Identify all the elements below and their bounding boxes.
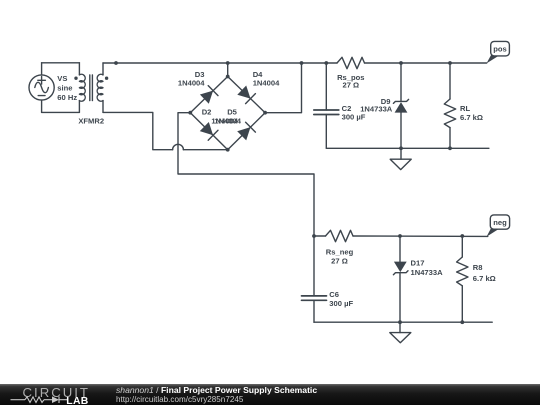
- capacitor C2: [314, 63, 339, 148]
- wire bridge top stub: [227, 63, 229, 77]
- wire neg rail: [353, 235, 488, 237]
- node D17 bottom: [398, 320, 402, 324]
- node bridge top vertex: [226, 75, 230, 79]
- diode D5: [237, 122, 255, 140]
- svg-text:D2: D2: [202, 108, 212, 117]
- svg-text:1N4733A: 1N4733A: [411, 268, 444, 277]
- svg-text:shannon1 / Final Project Power: shannon1 / Final Project Power Supply Sc…: [116, 385, 317, 395]
- wire source loop top: [42, 62, 80, 64]
- node R8 top: [460, 234, 464, 238]
- node R8 bottom: [460, 320, 464, 324]
- wire hop to bridge bottom vertex: [183, 149, 227, 151]
- label C6 300 uF: [329, 290, 353, 308]
- label R8 6.7 kohm: [473, 263, 496, 283]
- node RL top: [448, 61, 452, 65]
- flag pos: [487, 41, 510, 63]
- node bridge left vertex: [188, 111, 192, 115]
- svg-text:1N4004: 1N4004: [178, 79, 205, 88]
- svg-text:300 µF: 300 µF: [342, 113, 366, 122]
- svg-text:RL: RL: [460, 104, 470, 113]
- svg-text:1N4004: 1N4004: [253, 79, 280, 88]
- wire top rail left: [103, 62, 337, 64]
- svg-text:1N4004: 1N4004: [214, 117, 241, 126]
- label D2 D5: [202, 108, 238, 117]
- svg-text:Rs_neg: Rs_neg: [326, 247, 354, 256]
- diode D2: [200, 122, 218, 140]
- label pos: [493, 45, 507, 54]
- node D9 bottom: [399, 146, 403, 150]
- label D9 1N4733A: [360, 97, 393, 114]
- label D17 1N4733A: [411, 259, 444, 278]
- zener diode D9: [393, 63, 408, 148]
- label XFMR2: [78, 117, 104, 126]
- svg-text:pos: pos: [493, 45, 507, 54]
- svg-text:sine: sine: [57, 84, 72, 93]
- label C2 300 uF: [342, 104, 366, 122]
- svg-text:R8: R8: [473, 263, 483, 272]
- svg-text:27 Ω: 27 Ω: [342, 81, 359, 90]
- wire top rail right: [365, 62, 487, 64]
- capacitor C6: [302, 296, 327, 322]
- svg-text:neg: neg: [493, 218, 507, 227]
- label VS sine 60 Hz: [57, 74, 77, 102]
- svg-text:27 Ω: 27 Ω: [331, 257, 348, 266]
- ground negative section: [390, 322, 411, 343]
- svg-text:D17: D17: [411, 259, 425, 268]
- wire right vertex up to rail: [265, 63, 301, 113]
- wire hop over vertical: [173, 144, 184, 149]
- resistor Rs_pos: [337, 57, 365, 68]
- svg-text:6.7 kΩ: 6.7 kΩ: [460, 113, 483, 122]
- label D3 1N4004: [178, 70, 205, 88]
- svg-text:1N4733A: 1N4733A: [360, 105, 393, 114]
- wire neg rail left stub: [314, 235, 326, 237]
- svg-text:C6: C6: [329, 290, 339, 299]
- wire bottom rail of positive section: [326, 147, 489, 149]
- logo wire with resistor and diode: [11, 396, 68, 403]
- node bridge right vertex: [263, 111, 267, 115]
- node mid rail left: [312, 234, 316, 238]
- wire left vertex branch down: [178, 113, 314, 296]
- node RL bottom: [448, 146, 452, 150]
- wire secondary bottom to bridge bottom: [103, 112, 173, 149]
- svg-text:VS: VS: [57, 74, 67, 83]
- transformer XFMR2: [74, 63, 108, 113]
- svg-text:300 µF: 300 µF: [329, 299, 353, 308]
- node D17 top: [398, 234, 402, 238]
- label neg: [493, 218, 507, 227]
- ground positive section: [390, 148, 411, 169]
- node bridge top stub: [226, 61, 230, 65]
- node right vertex rail: [300, 61, 304, 65]
- label Rs_neg 27 ohm: [326, 247, 354, 265]
- node D9 top: [399, 61, 403, 65]
- svg-text:6.7 kΩ: 6.7 kΩ: [473, 274, 496, 283]
- wire bottom rail of negative section: [314, 321, 492, 323]
- svg-text:XFMR2: XFMR2: [78, 117, 104, 126]
- resistor R8: [457, 236, 468, 322]
- diode D4: [237, 86, 255, 104]
- resistor RL: [444, 63, 455, 148]
- label Rs_pos 27 ohm: [337, 73, 364, 90]
- voltage source VS: [29, 63, 54, 113]
- label RL 6.7 kohm: [460, 104, 483, 122]
- wire source loop bottom: [42, 111, 80, 113]
- svg-text:60 Hz: 60 Hz: [57, 93, 77, 102]
- resistor Rs_neg: [326, 230, 354, 241]
- diode bridge diamond: [190, 77, 265, 150]
- flag neg: [487, 215, 510, 237]
- diode D3: [200, 86, 218, 104]
- label D4 1N4004: [253, 70, 280, 88]
- svg-text:LAB: LAB: [66, 396, 88, 405]
- svg-text:D5: D5: [227, 108, 237, 117]
- node C2 top: [324, 61, 328, 65]
- node bridge bottom vertex: [226, 148, 230, 152]
- svg-text:http://circuitlab.com/c5vry285: http://circuitlab.com/c5vry285n7245: [116, 395, 244, 404]
- zener diode D17: [393, 236, 408, 322]
- label 1N4004 overlapped values of D2 and D5: [211, 117, 241, 126]
- node on top rail: [114, 61, 118, 65]
